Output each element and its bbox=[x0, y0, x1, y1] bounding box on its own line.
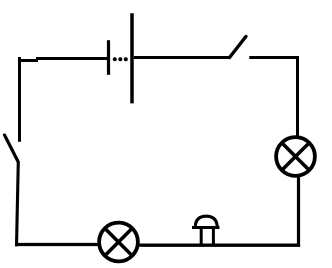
push button PB1 right leg bbox=[212, 229, 215, 244]
push button PB1 left leg bbox=[200, 229, 203, 244]
switch S2 blade (open) bbox=[230, 37, 246, 58]
lamp L2 circle bbox=[99, 223, 138, 262]
switch S1 blade (open) bbox=[5, 135, 19, 162]
wire left vertical from top corner down to switch S1 bbox=[18, 57, 21, 142]
wire from battery to switch S2 bbox=[134, 56, 230, 59]
wire bottom left segment (lamp L2 to bottom-left corner) bbox=[16, 243, 98, 246]
wire from switch S2 to top-right corner bbox=[249, 56, 299, 59]
wire right vertical down to lamp L1 bbox=[296, 56, 299, 137]
wire top-left horizontal (lower jog segment) bbox=[18, 59, 38, 62]
wire from lamp L1 down to bottom-right corner bbox=[297, 176, 300, 247]
wire left vertical below switch S1 to bottom corner bbox=[17, 161, 19, 246]
lamp L1 cross bbox=[282, 143, 309, 170]
battery B1 cell dots bbox=[113, 57, 128, 61]
wire bottom right segment (corner to lamp L2) bbox=[140, 243, 301, 246]
lamp L2 cross bbox=[105, 228, 132, 255]
wire top-left horizontal (upper segment to battery) bbox=[36, 57, 107, 60]
lamp L1 circle bbox=[276, 137, 315, 176]
push button PB1 base bar bbox=[192, 226, 220, 229]
push button PB1 dome bbox=[195, 216, 217, 226]
battery B1 short plate bbox=[107, 40, 110, 75]
battery B1 long plate bbox=[130, 13, 134, 103]
